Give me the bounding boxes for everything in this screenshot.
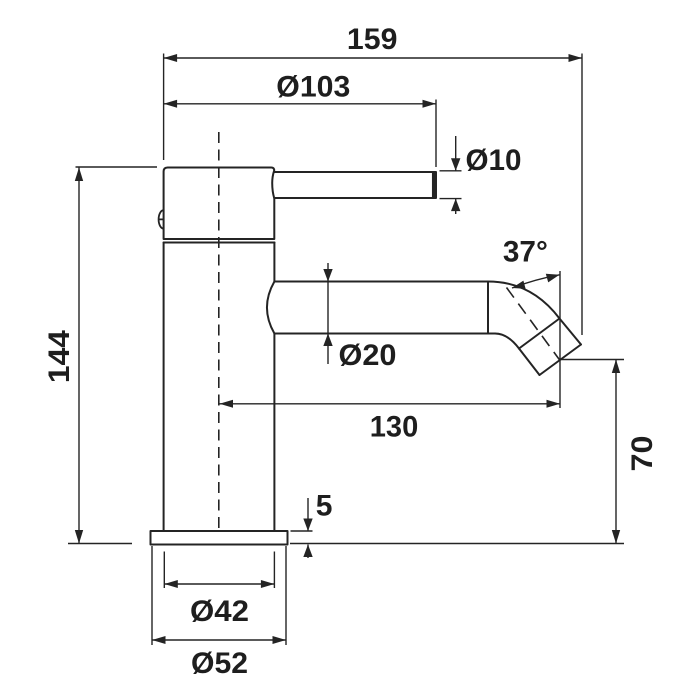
arrow 10 bottom — [451, 199, 460, 212]
outlet face line B — [540, 345, 582, 376]
arrow 103 right — [423, 100, 437, 108]
dim 10 lower tail — [455, 199, 457, 214]
svg-text:5: 5 — [316, 490, 333, 523]
set screw slot — [159, 218, 164, 220]
arrow 42 left — [164, 580, 178, 588]
arrow 20 bottom — [323, 334, 332, 347]
arrow 144 bottom — [75, 530, 83, 544]
lever end cap — [432, 172, 437, 198]
spout bottom edge — [275, 333, 496, 335]
dim 130 line — [220, 403, 561, 405]
dim 159 right extension — [581, 54, 583, 336]
arrow 37 arc right — [546, 274, 560, 283]
dim 42 right extension — [273, 552, 275, 589]
mounting plane extension — [290, 543, 624, 545]
dim 144 bottom extension — [68, 543, 132, 545]
dim 5 upper tail — [307, 498, 309, 531]
set screw half-ellipse — [159, 210, 164, 228]
dim 159/103 left extension — [163, 54, 165, 161]
svg-text:37°: 37° — [503, 236, 548, 269]
spout bend outer curve — [488, 282, 560, 319]
svg-text:Ø42: Ø42 — [190, 595, 249, 628]
arrow 70 top — [612, 360, 620, 374]
arrow 20 top — [323, 269, 332, 282]
arrow 103 left — [164, 100, 178, 108]
dim 52 left extension — [151, 546, 153, 645]
dim 70 top extension — [560, 359, 624, 361]
faucet body right edge lower — [273, 334, 275, 532]
dim 20 line — [327, 263, 329, 364]
handle head bottom ring — [164, 242, 275, 244]
arrow 159 right — [569, 54, 583, 62]
dim 42 left extension — [163, 552, 165, 589]
arrow 37 arc left — [512, 281, 526, 289]
faucet body right edge upper — [273, 243, 275, 282]
svg-text:159: 159 — [347, 23, 398, 56]
dim 10 upper tail — [455, 136, 457, 171]
faucet body left edge — [163, 243, 165, 532]
arrow 70 bottom — [612, 530, 620, 544]
svg-text:Ø52: Ø52 — [191, 647, 248, 680]
arrow 144 top — [75, 168, 83, 182]
angle 37 arc — [512, 275, 560, 288]
outlet joint line A — [519, 319, 560, 349]
dim 144 line — [78, 168, 80, 544]
dim 5 top tick — [291, 530, 313, 532]
arrow 42 right — [261, 580, 275, 588]
dim 10 lower tick — [440, 198, 462, 200]
svg-text:144: 144 — [43, 330, 76, 383]
outlet axis dashed — [507, 288, 561, 361]
base plate — [151, 531, 288, 545]
arrow 52 left — [152, 636, 166, 644]
dim 5 lower tail — [307, 545, 309, 559]
arrow 5 top — [303, 519, 312, 532]
arrow 52 right — [273, 636, 287, 644]
arrow 130 right — [547, 400, 561, 408]
arrow 130 left — [220, 400, 234, 408]
dim 159 line — [164, 57, 582, 59]
arrow 10 top — [451, 158, 460, 171]
dim 130 right extension — [559, 271, 561, 408]
svg-text:70: 70 — [626, 436, 659, 472]
svg-text:Ø10: Ø10 — [466, 144, 522, 177]
spout-body intersection curve — [267, 282, 274, 334]
dim 52 line — [152, 639, 286, 641]
dim 70 line — [615, 360, 617, 544]
body centerline dashed — [218, 132, 220, 531]
spout bend joint line — [487, 282, 489, 334]
dim 52 right extension — [285, 546, 287, 645]
arrow 5 bottom — [303, 545, 312, 558]
spout top edge — [275, 281, 489, 283]
dim 144 top extension — [76, 166, 158, 168]
dim 103 right extension — [435, 100, 437, 168]
arrow 159 left — [164, 54, 178, 62]
dim 42 line — [164, 583, 274, 585]
outlet left edge — [519, 349, 540, 376]
outlet right edge — [560, 319, 582, 345]
dim 103 line — [164, 103, 436, 105]
dim 10 upper tick — [440, 170, 462, 172]
svg-text:Ø103: Ø103 — [276, 70, 350, 103]
spout bend inner curve — [495, 334, 519, 349]
faucet handle head — [164, 168, 275, 240]
svg-text:Ø20: Ø20 — [339, 339, 397, 372]
lever handle — [274, 172, 436, 198]
svg-text:130: 130 — [370, 411, 419, 444]
